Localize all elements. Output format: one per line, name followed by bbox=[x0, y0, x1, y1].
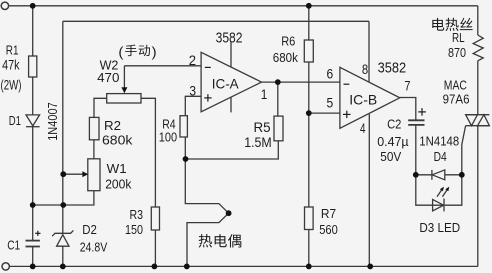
svg-text:50V: 50V bbox=[380, 149, 401, 164]
svg-text:560: 560 bbox=[319, 222, 338, 237]
svg-text:870: 870 bbox=[448, 45, 466, 60]
svg-text:200k: 200k bbox=[105, 177, 132, 192]
svg-text:1N4007: 1N4007 bbox=[45, 102, 60, 141]
svg-text:3582: 3582 bbox=[378, 60, 407, 77]
svg-text:97A6: 97A6 bbox=[443, 91, 470, 106]
svg-text:5: 5 bbox=[327, 95, 334, 111]
svg-text:680k: 680k bbox=[102, 132, 133, 147]
svg-text:R1: R1 bbox=[6, 43, 19, 58]
svg-text:47k: 47k bbox=[2, 57, 20, 73]
svg-text:R2: R2 bbox=[104, 118, 121, 133]
svg-text:C2: C2 bbox=[387, 116, 401, 131]
svg-text:1: 1 bbox=[261, 86, 268, 102]
svg-text:680k: 680k bbox=[273, 50, 299, 65]
svg-text:RL: RL bbox=[452, 30, 465, 45]
svg-text:C1: C1 bbox=[7, 237, 20, 252]
svg-text:8: 8 bbox=[362, 61, 368, 77]
svg-text:R5: R5 bbox=[254, 119, 271, 135]
svg-text:R7: R7 bbox=[321, 206, 336, 221]
svg-text:R3: R3 bbox=[130, 207, 144, 222]
svg-text:W1: W1 bbox=[107, 161, 127, 176]
svg-text:3: 3 bbox=[189, 83, 196, 99]
svg-text:(2W): (2W) bbox=[1, 77, 22, 93]
svg-text:D1: D1 bbox=[9, 113, 21, 128]
svg-text:D3 LED: D3 LED bbox=[419, 220, 460, 235]
svg-text:3582: 3582 bbox=[216, 30, 243, 47]
svg-text:IC-B: IC-B bbox=[349, 92, 377, 108]
svg-text:(: ( bbox=[118, 44, 123, 60]
svg-text:R6: R6 bbox=[281, 34, 295, 49]
svg-text:): ) bbox=[152, 44, 157, 60]
svg-text:0.47µ: 0.47µ bbox=[377, 134, 409, 149]
svg-text:2: 2 bbox=[189, 52, 196, 68]
svg-text:4: 4 bbox=[360, 120, 366, 136]
svg-text:1.5M: 1.5M bbox=[244, 134, 272, 150]
svg-text:24.8V: 24.8V bbox=[80, 240, 108, 255]
svg-text:D4: D4 bbox=[434, 149, 447, 164]
svg-text:150: 150 bbox=[125, 222, 143, 237]
svg-text:7: 7 bbox=[404, 78, 410, 94]
svg-text:MAC: MAC bbox=[444, 78, 467, 93]
svg-text:1N4148: 1N4148 bbox=[419, 133, 459, 148]
svg-text:6: 6 bbox=[327, 65, 334, 81]
svg-text:D2: D2 bbox=[82, 222, 97, 237]
svg-text:100: 100 bbox=[159, 130, 177, 145]
svg-text:IC-A: IC-A bbox=[212, 75, 240, 91]
svg-text:470: 470 bbox=[97, 70, 119, 85]
